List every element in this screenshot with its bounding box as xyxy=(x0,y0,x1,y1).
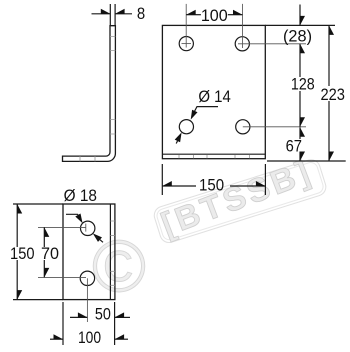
centerline horizontal top-right hole xyxy=(238,43,306,45)
dimension 8 arrow right (points left) xyxy=(115,9,125,14)
dimension 50 left tail xyxy=(70,316,87,318)
dimension 8 arrow left (points right) xyxy=(101,9,111,14)
svg-text:70: 70 xyxy=(41,244,59,263)
svg-text:128: 128 xyxy=(291,75,315,94)
dimension 50 right tail xyxy=(115,316,130,318)
watermark BTSSB text xyxy=(152,157,328,244)
dimension 50 arrow left (points right) xyxy=(78,312,88,317)
dimension 150 (top view) line xyxy=(16,204,18,300)
hole top view lower Ø18 xyxy=(80,271,94,285)
front view bottom fold band line xyxy=(162,153,265,155)
svg-text:Ø 18: Ø 18 xyxy=(64,186,97,205)
svg-text:223: 223 xyxy=(320,85,345,104)
svg-text:Ø 14: Ø 14 xyxy=(198,87,231,106)
dimension 223 arrow up xyxy=(329,25,334,35)
dimension 100 arrow left (points right) xyxy=(54,334,64,339)
top view plate outline xyxy=(63,204,115,300)
top view fold inner line xyxy=(109,204,111,300)
label Ø14 second arrow tail xyxy=(176,138,179,143)
centerline vertical lower hole xyxy=(86,278,88,322)
hole bottom-right Ø14 xyxy=(236,120,250,134)
dimension 50 right extension line xyxy=(114,302,116,345)
svg-text:8: 8 xyxy=(137,4,145,23)
front view fold band tick marks xyxy=(179,155,250,159)
dimension 150 (top view) arrow up xyxy=(17,204,22,214)
hole bottom-left Ø14 xyxy=(179,120,193,134)
svg-text:100: 100 xyxy=(78,328,101,347)
dimension 150 arrow left xyxy=(162,181,172,186)
side view hidden hole edge dashes (vertical leg) xyxy=(110,37,115,135)
label Ø18 leader arrow (points down-right) xyxy=(75,214,82,224)
dimension 100 arrow right (points right) xyxy=(233,10,243,15)
dimension 128 arrow up xyxy=(300,44,305,54)
svg-text:150: 150 xyxy=(199,176,224,195)
extension line top edge to 223 xyxy=(265,24,335,26)
dimension 67 arrow down xyxy=(300,152,305,162)
dimension 223 arrow down xyxy=(329,152,334,162)
centerline vertical top-right hole xyxy=(242,4,244,48)
svg-text:(28): (28) xyxy=(283,26,312,45)
dimension 100 line right segment xyxy=(228,14,243,16)
label Ø18 second arrow (points up-left) xyxy=(93,233,102,242)
dimension 100 arrow right (points left) xyxy=(115,334,125,339)
dimension 8 line left xyxy=(92,13,111,15)
svg-text:50: 50 xyxy=(95,305,111,324)
dimension 150 (top view) arrow down xyxy=(17,290,22,300)
dimension 8 line right xyxy=(115,13,132,15)
centerline horizontal bottom-right hole xyxy=(243,126,306,128)
centerline vertical top-left hole xyxy=(185,4,187,48)
dimension 100 left extension line xyxy=(62,302,64,345)
dimension 100 line left segment xyxy=(186,14,201,16)
dimension 223 line upper xyxy=(328,25,330,86)
label Ø18 second arrow tail xyxy=(96,236,103,242)
label Ø14 leader arrow upper xyxy=(191,110,198,120)
hole top-right Ø14 xyxy=(235,37,249,51)
dimension 70 arrow up xyxy=(44,227,49,237)
svg-text:150: 150 xyxy=(10,244,35,263)
dimension 67 line upper xyxy=(299,127,301,139)
centerline tick upper hole xyxy=(85,224,87,232)
dimension 100 right tail xyxy=(115,338,128,340)
dimension 67 arrow up xyxy=(300,127,305,137)
centerline tick top-left hole xyxy=(182,43,192,45)
dimension 150 (top view) extension lines xyxy=(13,204,63,300)
label Ø18 leader shoulder xyxy=(66,214,81,219)
centerline horizontal upper hole xyxy=(38,226,86,228)
dimension 100 left tail xyxy=(50,338,63,340)
watermark copyright symbol xyxy=(92,227,146,308)
dimension 128 line lower xyxy=(299,91,301,127)
dimension 70 line xyxy=(43,227,45,277)
dimension 150 line xyxy=(162,185,265,187)
dimension 150 extension lines (front view) xyxy=(162,164,265,195)
label Ø14 second arrow lower-left xyxy=(175,132,182,142)
dimension 8 extension lines xyxy=(110,4,115,25)
dimension (28) arrow down xyxy=(300,16,305,26)
dimension 50 arrow right (points left) xyxy=(115,312,125,317)
dimension (28) line above xyxy=(299,5,301,26)
side view hidden hole edge dashes (horizontal leg) xyxy=(80,156,95,161)
dimension 70 arrow down xyxy=(44,268,49,278)
side view L-profile outline xyxy=(63,26,116,162)
extension line bottom to 223 xyxy=(267,160,346,162)
dimension 67 line lower xyxy=(299,152,301,162)
dimension 128 line upper xyxy=(299,44,301,77)
front view plate rectangle xyxy=(162,25,265,158)
hole top-left Ø14 xyxy=(179,37,193,51)
centerline horizontal lower hole xyxy=(38,276,86,278)
hole top view upper Ø18 xyxy=(81,221,95,235)
dimension 100 arrow left (points left) xyxy=(186,10,196,15)
svg-text:100: 100 xyxy=(201,6,228,25)
dimension 128 arrow down xyxy=(300,117,305,127)
top view fold band dashes xyxy=(110,221,115,285)
dimension 223 line lower xyxy=(328,101,330,161)
label Ø14 leader shoulder xyxy=(193,107,218,114)
dimension 150 arrow right xyxy=(256,181,266,186)
